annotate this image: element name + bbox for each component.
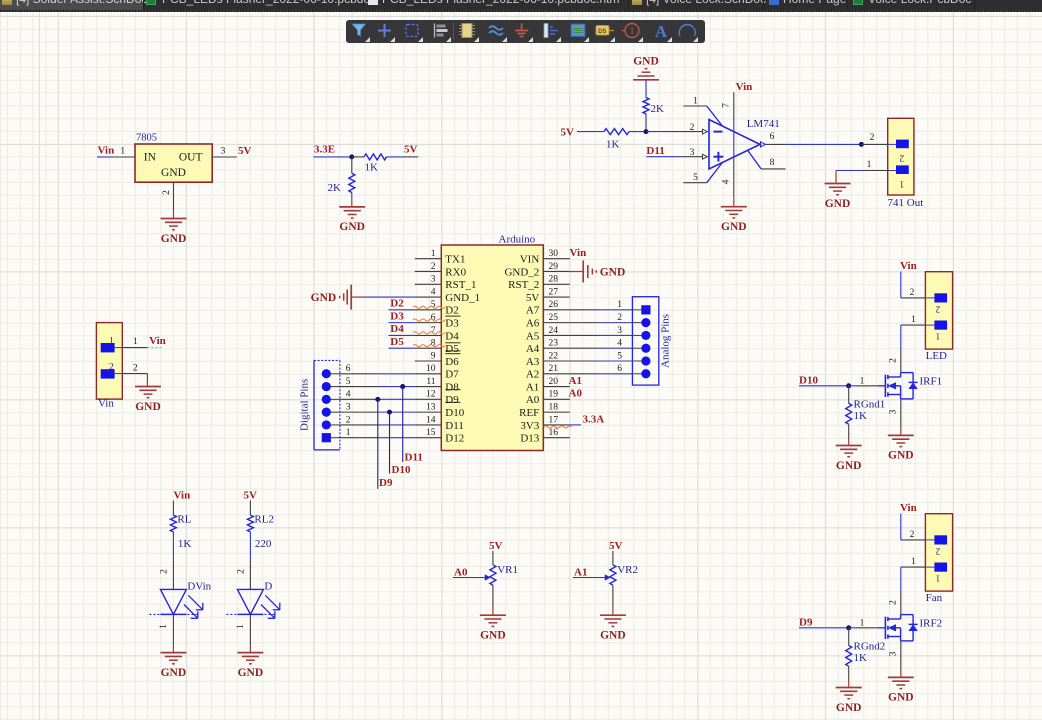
- pin 2 of 741 Out connector: [861, 143, 887, 145]
- svg-text:D10: D10: [445, 407, 464, 419]
- wire D2 stub: [389, 309, 415, 311]
- LED D: [237, 589, 263, 614]
- svg-text:1: 1: [911, 557, 916, 567]
- svg-text:2: 2: [910, 530, 915, 540]
- svg-text:2: 2: [237, 569, 247, 574]
- svg-text:D2: D2: [390, 298, 404, 310]
- svg-text:5V: 5V: [244, 490, 258, 502]
- pin 1 of Arduino (TX1): [415, 258, 442, 260]
- wire drop to net label D9: [377, 399, 379, 488]
- svg-text:GND: GND: [888, 450, 914, 462]
- svg-text:GND: GND: [161, 233, 187, 245]
- pin 1 gate of IRF2: [849, 627, 856, 629]
- op-amp U? LM741 triangle: [709, 120, 760, 170]
- svg-text:Digital Pins: Digital Pins: [299, 379, 311, 431]
- junction node at gate: [846, 625, 851, 630]
- svg-text:D9: D9: [379, 477, 393, 489]
- wire 5V to 1K: [577, 131, 604, 133]
- svg-text:28: 28: [549, 275, 559, 285]
- svg-text:3: 3: [617, 326, 622, 336]
- potentiometer VR2: [610, 565, 616, 585]
- ground GND above 2K bias resistor: [633, 79, 659, 81]
- move cursor icon: [378, 24, 391, 37]
- IC part icon: [462, 24, 472, 38]
- power lead to ground: [173, 210, 175, 219]
- pin 2 of 7805: [173, 182, 175, 210]
- svg-text:A3: A3: [526, 356, 540, 368]
- pin 1 gate of IRF1: [849, 385, 856, 387]
- pin 2 drain of IRF2: [900, 590, 902, 615]
- svg-text:3V3: 3V3: [520, 420, 539, 432]
- wire Arduino pin 21 to Analog Pins connector pin 6: [570, 373, 598, 375]
- svg-text:D3: D3: [390, 310, 404, 322]
- pin 15 of Arduino (D12): [415, 437, 442, 439]
- junction node: [349, 154, 354, 159]
- svg-text:30: 30: [549, 249, 559, 259]
- wire Vin to LED pin 2: [900, 272, 902, 298]
- svg-text:1: 1: [120, 147, 125, 157]
- ground GND below RGnd1: [836, 445, 862, 447]
- svg-text:24: 24: [549, 326, 559, 336]
- no ERC icon: [625, 24, 639, 38]
- svg-text:3: 3: [889, 409, 899, 414]
- wire D9 to gate junction: [799, 627, 849, 629]
- svg-text:REF: REF: [519, 407, 539, 419]
- pin 2 of LED D: [249, 561, 251, 589]
- svg-text:3.3A: 3.3A: [583, 413, 605, 425]
- wire Arduino pin 22 to Analog Pins connector pin 5: [570, 360, 598, 362]
- svg-text:2: 2: [888, 358, 898, 363]
- selection rectangle icon: [406, 25, 418, 37]
- svg-text:2: 2: [899, 153, 904, 163]
- wire LED pin 1 to MOSFET drain: [901, 324, 926, 326]
- wire stub at Arduino pin 17: [570, 424, 581, 426]
- pin 2 of LED DVin: [172, 561, 174, 589]
- svg-text:6: 6: [617, 364, 622, 374]
- sheet symbol icon: [571, 24, 585, 37]
- svg-text:VIN: VIN: [520, 254, 540, 266]
- svg-text:4: 4: [722, 179, 732, 184]
- svg-text:RL: RL: [177, 514, 191, 526]
- svg-text:5: 5: [693, 173, 698, 183]
- svg-text:220: 220: [255, 538, 272, 550]
- wire Vin to resistor: [172, 501, 174, 516]
- wire VR2 to ground: [612, 585, 614, 607]
- connector 741 Out: [888, 118, 914, 195]
- svg-text:1: 1: [617, 300, 622, 310]
- svg-text:RGnd2: RGnd2: [854, 641, 886, 653]
- pin 5 of Arduino (D2): [415, 309, 442, 311]
- pin 27 of Arduino (5V): [543, 296, 570, 298]
- svg-text:Analog Pins: Analog Pins: [660, 314, 672, 368]
- net label icon: [596, 26, 609, 36]
- svg-text:10: 10: [426, 364, 436, 374]
- svg-text:D11: D11: [405, 452, 423, 464]
- pin 14 of Arduino (D11): [415, 424, 442, 426]
- resistor 2K vertical: [351, 157, 353, 173]
- pin 22 of Arduino (A3): [543, 360, 570, 362]
- svg-text:LED: LED: [926, 350, 947, 362]
- svg-text:5: 5: [346, 377, 351, 387]
- ground GND below VR2: [600, 614, 626, 616]
- svg-text:GND: GND: [339, 221, 365, 233]
- wire 5V to VR2: [612, 551, 614, 565]
- svg-text:Vin: Vin: [900, 260, 917, 272]
- pin 26 of Arduino (A7): [543, 309, 570, 311]
- wire VR1 to ground: [492, 585, 494, 607]
- svg-text:2: 2: [346, 415, 351, 425]
- wire Arduino pin 23 to Analog Pins connector pin 4: [570, 347, 598, 349]
- overbar lines on Arduino pin names: [445, 315, 460, 317]
- compile error squiggle at pin 8: [413, 345, 445, 347]
- junction node on output wire: [859, 142, 864, 147]
- wire RGnd2 to ground: [848, 666, 850, 680]
- wire op-amp output to connector: [787, 143, 862, 145]
- svg-text:2: 2: [162, 190, 172, 195]
- connector Fan: [925, 514, 952, 591]
- resistor RL 1K: [170, 515, 176, 532]
- svg-text:D5: D5: [390, 336, 404, 348]
- svg-text:7805: 7805: [136, 132, 157, 143]
- ground GND at Arduino pin 4: [350, 285, 352, 310]
- potentiometer VR1: [490, 565, 496, 585]
- svg-text:GND: GND: [238, 667, 264, 679]
- svg-text:3: 3: [346, 403, 351, 413]
- wire Vin to Fan pin 2: [900, 514, 902, 540]
- pin icon: [544, 24, 548, 38]
- wire D3 stub: [389, 322, 415, 324]
- svg-text:D10: D10: [392, 464, 411, 476]
- wire A0 to wiper: [453, 577, 485, 579]
- svg-text:1: 1: [936, 332, 941, 342]
- svg-text:8: 8: [770, 158, 775, 168]
- svg-text:19: 19: [549, 390, 559, 400]
- pin 10 of Arduino (D7): [415, 373, 442, 375]
- wire Digital Pins connector to Arduino pin 15: [340, 437, 378, 439]
- resistor 1K horizontal: [352, 156, 364, 158]
- svg-text:GND: GND: [161, 667, 187, 679]
- wire Digital Pins connector to Arduino pin 14: [340, 424, 378, 426]
- svg-text:GND: GND: [721, 221, 747, 233]
- svg-text:1K: 1K: [854, 652, 868, 664]
- svg-text:1K: 1K: [854, 410, 868, 422]
- wire D4 stub: [389, 334, 415, 336]
- align icon: [434, 24, 436, 38]
- svg-text:5V: 5V: [561, 127, 575, 139]
- svg-text:GND: GND: [311, 292, 337, 304]
- svg-text:2K: 2K: [651, 103, 665, 115]
- svg-text:A1: A1: [569, 375, 582, 387]
- pin 2 drain of IRF1: [900, 348, 902, 373]
- wire D10 to gate junction: [799, 385, 849, 387]
- svg-text:GND: GND: [888, 692, 914, 704]
- svg-text:27: 27: [549, 287, 559, 297]
- svg-text:1: 1: [911, 315, 916, 325]
- wire resistor to LED: [249, 532, 251, 561]
- compile error squiggle at pin 7: [413, 332, 445, 334]
- svg-text:GND: GND: [161, 167, 186, 179]
- svg-text:GND_2: GND_2: [504, 266, 539, 278]
- svg-text:1: 1: [236, 624, 246, 629]
- svg-text:17: 17: [549, 415, 559, 425]
- svg-text:13: 13: [426, 403, 436, 413]
- svg-text:26: 26: [549, 300, 559, 310]
- svg-text:1K: 1K: [178, 538, 192, 550]
- svg-text:D12: D12: [445, 433, 464, 445]
- wires icon: [489, 26, 503, 35]
- pin 21 of Arduino (A2): [543, 373, 570, 375]
- svg-text:A7: A7: [526, 305, 540, 317]
- pin 1 of op-amp: [683, 105, 706, 107]
- svg-text:GND: GND: [836, 460, 862, 472]
- transistor IRF1 MOSFET: [884, 375, 886, 397]
- svg-text:2: 2: [910, 288, 915, 298]
- svg-text:3: 3: [431, 275, 436, 285]
- wire junction to op-amp inverting input: [646, 131, 682, 133]
- svg-text:GND: GND: [836, 702, 862, 714]
- svg-text:GND_1: GND_1: [445, 292, 480, 304]
- power port icon: [515, 24, 528, 37]
- svg-text:VR1: VR1: [497, 564, 518, 576]
- wire Vin label stub: [147, 347, 163, 349]
- svg-text:2: 2: [133, 363, 138, 373]
- svg-text:1: 1: [109, 337, 114, 347]
- svg-text:1: 1: [693, 97, 698, 107]
- svg-text:2: 2: [888, 600, 898, 605]
- power lead ground to wire: [351, 296, 364, 298]
- svg-text:7: 7: [722, 103, 732, 108]
- svg-text:IRF2: IRF2: [920, 617, 943, 629]
- svg-text:2: 2: [160, 569, 170, 574]
- svg-text:1K: 1K: [365, 162, 379, 174]
- svg-text:5V: 5V: [238, 145, 252, 157]
- pin 7 of Arduino (D4): [415, 334, 442, 336]
- svg-text:9: 9: [431, 351, 436, 361]
- wire drop to net label D11: [402, 387, 404, 462]
- pin 8 of op-amp: [748, 151, 761, 169]
- wire Fan pin 1 to MOSFET drain: [901, 566, 926, 568]
- junction node at op-amp pin 2: [644, 129, 649, 134]
- pin 29 of Arduino (GND_2): [543, 270, 570, 272]
- pin 3 source of IRF2: [900, 641, 902, 671]
- pin 7 of op-amp: [733, 92, 735, 120]
- wire 741 Out pin 1 to ground: [836, 170, 862, 172]
- svg-text:3: 3: [690, 148, 695, 158]
- ground GND below D: [237, 652, 263, 654]
- junction node at gate: [846, 383, 851, 388]
- svg-text:D4: D4: [445, 330, 459, 342]
- connector Digital Pins: [313, 360, 315, 450]
- svg-text:2: 2: [936, 305, 941, 315]
- wire A1 to wiper: [573, 577, 605, 579]
- wire ground to 2K resistor: [645, 80, 647, 98]
- LED DVin: [160, 589, 186, 614]
- svg-text:1: 1: [133, 337, 138, 347]
- ground GND below IRF1 source: [888, 434, 914, 436]
- svg-text:22: 22: [549, 351, 559, 361]
- svg-text:23: 23: [549, 339, 559, 349]
- wire 5V to resistor: [249, 501, 251, 516]
- ground GND below op-amp: [721, 206, 747, 208]
- svg-text:5V: 5V: [526, 292, 540, 304]
- svg-text:5V: 5V: [489, 540, 503, 552]
- wire resistor to LED: [172, 532, 174, 561]
- svg-text:D9: D9: [445, 394, 459, 406]
- svg-text:IRF1: IRF1: [920, 375, 943, 387]
- svg-text:1K: 1K: [606, 139, 620, 151]
- wire D5 stub: [389, 347, 415, 349]
- svg-text:4: 4: [346, 390, 351, 400]
- svg-text:3: 3: [221, 147, 226, 157]
- svg-text:2K: 2K: [328, 182, 342, 194]
- wire 3.3E to junction: [314, 156, 352, 158]
- pin 1 of Vin connector: [122, 347, 147, 349]
- transistor IRF2 MOSFET: [884, 617, 886, 639]
- wire Arduino pin 26 to Analog Pins connector pin 1: [570, 309, 598, 311]
- wire RGnd1 to ground: [848, 424, 850, 438]
- pin 12 of Arduino (D9): [415, 398, 442, 400]
- svg-text:IN: IN: [144, 151, 157, 163]
- svg-text:VR2: VR2: [617, 564, 638, 576]
- svg-text:Vin: Vin: [174, 490, 191, 502]
- wire drop to net label D10: [389, 412, 391, 473]
- svg-text:D13: D13: [520, 433, 539, 445]
- ground GND below 2K: [339, 206, 365, 208]
- connector Analog Pins: [632, 297, 658, 385]
- compile error squiggle at pin 5: [413, 306, 445, 308]
- svg-text:2: 2: [870, 133, 875, 143]
- svg-text:RST_2: RST_2: [508, 279, 539, 291]
- resistor RGnd2 1K: [848, 628, 850, 646]
- svg-text:RL2: RL2: [254, 514, 274, 526]
- svg-text:11: 11: [426, 377, 435, 387]
- pin 30 of Arduino (VIN): [543, 258, 570, 260]
- svg-text:D11: D11: [646, 145, 664, 157]
- svg-text:DVin: DVin: [187, 581, 211, 593]
- pin 19 of Arduino (A0): [543, 398, 570, 400]
- pin 5 of op-amp: [683, 182, 706, 184]
- svg-text:D10: D10: [799, 375, 818, 387]
- svg-text:741 Out: 741 Out: [888, 197, 924, 209]
- compile error squiggle at pin 6: [413, 319, 445, 321]
- pin 3 of op-amp: [682, 156, 703, 158]
- svg-text:A1: A1: [526, 381, 539, 393]
- svg-text:A1: A1: [574, 567, 587, 579]
- pin 6 output of op-amp: [761, 142, 766, 147]
- svg-text:1: 1: [867, 160, 872, 170]
- pin 17 of Arduino (3V3): [543, 424, 570, 426]
- ground GND at Vin connector: [135, 386, 161, 388]
- ground GND below IRF2 source: [888, 676, 914, 678]
- svg-text:D8: D8: [445, 381, 459, 393]
- compile error squiggle at pin 17: [544, 426, 572, 428]
- svg-text:4: 4: [431, 287, 436, 297]
- svg-text:3: 3: [889, 651, 899, 656]
- wire D11 to op-amp: [646, 156, 682, 158]
- svg-text:A0: A0: [454, 567, 468, 579]
- pin 13 of Arduino (D10): [415, 411, 442, 413]
- wire Digital Pins connector to Arduino pin 10: [340, 373, 378, 375]
- svg-text:5V: 5V: [404, 144, 418, 156]
- pin 3 source of IRF1: [900, 399, 902, 429]
- svg-text:2: 2: [690, 123, 695, 133]
- pin 16 of Arduino (D13): [543, 437, 570, 439]
- svg-text:Vin: Vin: [149, 335, 166, 347]
- svg-text:1: 1: [860, 619, 865, 629]
- svg-text:25: 25: [549, 313, 559, 323]
- resistor 1K horizontal op-amp: [604, 129, 629, 135]
- svg-text:Fan: Fan: [926, 592, 943, 604]
- svg-text:D: D: [264, 581, 272, 593]
- svg-text:21: 21: [549, 364, 559, 374]
- svg-text:D9: D9: [799, 617, 813, 629]
- resistor 2K vertical op-amp: [643, 98, 649, 114]
- svg-text:GND: GND: [600, 266, 626, 278]
- ground GND at 741 Out: [825, 183, 851, 185]
- pin 1 of LED D: [249, 614, 251, 645]
- svg-text:Vin: Vin: [98, 145, 115, 157]
- svg-text:2: 2: [617, 313, 622, 323]
- ground GND below RGnd2: [836, 687, 862, 689]
- connector Vin input: [96, 323, 122, 400]
- svg-text:GND: GND: [825, 198, 851, 210]
- svg-text:RX0: RX0: [445, 266, 466, 278]
- ground GND below VR1: [480, 614, 506, 616]
- svg-text:A4: A4: [526, 343, 540, 355]
- junction node on D10 row: [387, 410, 392, 415]
- filter icon: [352, 24, 366, 36]
- wire 5V to VR1: [492, 551, 494, 565]
- svg-text:1: 1: [346, 428, 351, 438]
- svg-text:GND: GND: [480, 630, 506, 642]
- arc icon: [679, 25, 695, 36]
- pin 8 of Arduino (D5): [415, 347, 442, 349]
- wire Arduino pin 25 to Analog Pins connector pin 2: [570, 322, 598, 324]
- svg-text:5V: 5V: [609, 540, 623, 552]
- pin 4 of op-amp: [733, 144, 735, 159]
- svg-text:D2: D2: [445, 305, 458, 317]
- pin 1 of 7805: [112, 156, 135, 158]
- wire ground to Arduino pin 4: [365, 296, 415, 298]
- svg-text:A0: A0: [569, 388, 583, 400]
- svg-text:A0: A0: [526, 394, 540, 406]
- pin 20 of Arduino (A1): [543, 386, 570, 388]
- svg-text:Vin: Vin: [736, 81, 753, 93]
- svg-text:D7: D7: [445, 369, 459, 381]
- svg-text:16: 16: [549, 428, 559, 438]
- ground GND at Arduino pin 29: [582, 260, 584, 282]
- svg-text:2: 2: [109, 363, 114, 373]
- svg-text:6: 6: [346, 364, 351, 374]
- svg-text:A5: A5: [526, 330, 540, 342]
- pin 11 of Arduino (D8): [415, 386, 442, 388]
- svg-text:1: 1: [936, 574, 941, 584]
- svg-text:D3: D3: [445, 318, 459, 330]
- svg-text:4: 4: [617, 339, 622, 349]
- resistor RL2 220: [247, 515, 253, 532]
- svg-text:14: 14: [426, 415, 436, 425]
- svg-text:1: 1: [899, 178, 904, 188]
- connector LED: [925, 272, 952, 349]
- svg-text:2: 2: [431, 262, 436, 272]
- svg-text:29: 29: [549, 262, 559, 272]
- svg-text:D11: D11: [445, 420, 464, 432]
- svg-text:Arduino: Arduino: [499, 234, 536, 246]
- pin 18 of Arduino (REF): [543, 411, 570, 413]
- svg-text:D6: D6: [445, 356, 459, 368]
- wire Digital Pins connector to Arduino pin 13: [340, 411, 378, 413]
- floating toolbar: [346, 20, 705, 43]
